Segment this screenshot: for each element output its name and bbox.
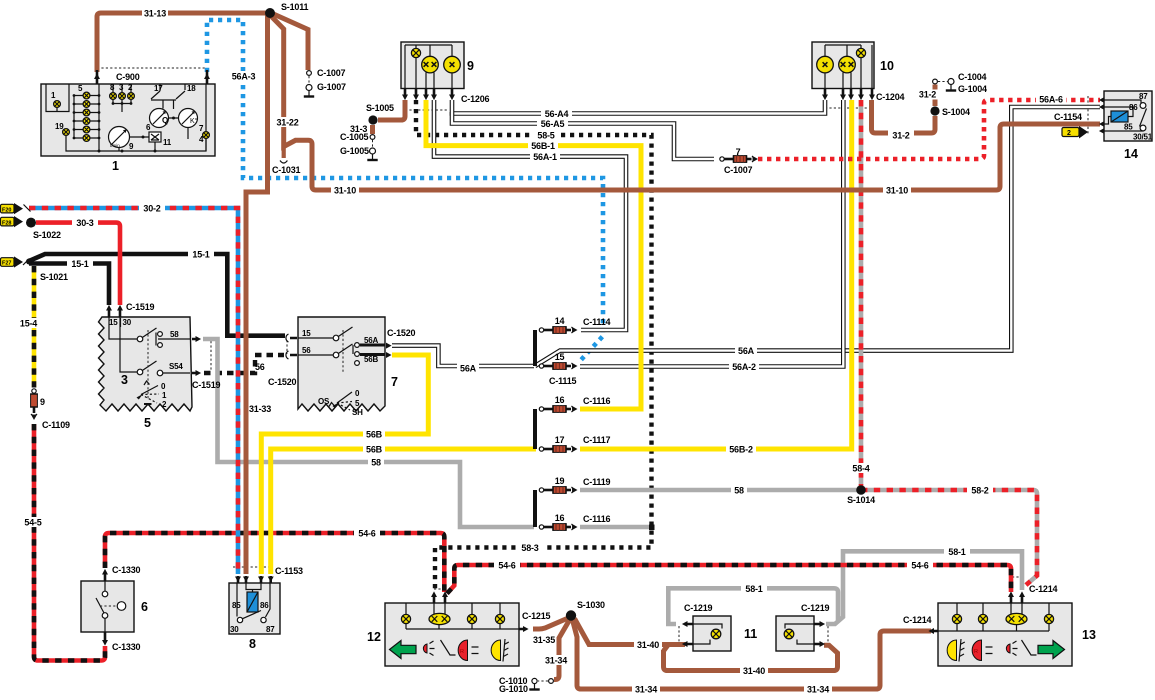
- cluster internal wiring: [46, 84, 206, 151]
- lamp 10 high beam bulb: [817, 56, 834, 73]
- svg-text:56A: 56A: [738, 346, 755, 356]
- relay 8 internals: [247, 592, 258, 612]
- svg-text:C-1154: C-1154: [1054, 112, 1082, 122]
- fuse 14: [539, 326, 577, 334]
- cluster bulb 19: [63, 129, 70, 136]
- svg-text:G-1005: G-1005: [340, 146, 369, 156]
- wire 56A-3 blue dotted: C-900 to C-1115: [207, 20, 603, 361]
- cluster bulbs 8 3 2: [110, 93, 135, 105]
- wire 56B-2 yellow: fuse 17 C-1117 to lamp 10: [580, 100, 852, 449]
- switch 7 selector: [329, 392, 352, 410]
- svg-text:1: 1: [112, 159, 119, 173]
- side marker lamp left (component 11a) box: [693, 616, 731, 651]
- svg-text:86: 86: [260, 601, 269, 610]
- fog lamp relay (component 8) box: [229, 583, 280, 634]
- svg-text:54-6: 54-6: [358, 529, 375, 539]
- svg-text:15-4: 15-4: [20, 319, 37, 329]
- connector dashed line C-1519: [210, 341, 212, 371]
- lamp 13 bulb 2: [978, 614, 987, 623]
- connector dashed line C-1204: [825, 107, 872, 109]
- lamp 9 high beam bulb: [444, 56, 461, 73]
- lamp 13 pins: [933, 595, 1022, 631]
- svg-text:OS: OS: [318, 397, 330, 406]
- svg-text:56B: 56B: [364, 355, 378, 364]
- svg-text:2: 2: [1067, 130, 1071, 137]
- fuse block jumper 16-17: [533, 409, 537, 449]
- wire 56-A4 outline: lamp 9 to lamp 10: [452, 100, 825, 114]
- connector dashed line C-1219 right: [827, 626, 829, 642]
- wire 54-5 red/black dashed: fuse 9 C-1109 to switch 6: [34, 424, 105, 661]
- svg-text:54-6: 54-6: [911, 561, 928, 571]
- svg-text:58: 58: [734, 486, 744, 496]
- lamp 13 icon fog yellow: [947, 639, 965, 662]
- fuse block jumper 14-15: [533, 330, 537, 366]
- lamp 10 low beam bulb: [839, 56, 856, 73]
- lamp 12 icon turn green arrow: [390, 641, 417, 659]
- svg-text:G-1004: G-1004: [958, 84, 987, 94]
- svg-text:58-5: 58-5: [537, 131, 554, 141]
- svg-text:K°: K°: [190, 117, 198, 125]
- splice S-1021: [26, 259, 32, 265]
- svg-text:C-1219: C-1219: [801, 603, 830, 613]
- svg-text:F27: F27: [2, 261, 11, 267]
- lamp 13 bulb 1: [952, 614, 961, 623]
- tick at 30-2 start: [24, 205, 31, 212]
- svg-text:87: 87: [266, 625, 275, 634]
- lamp 10 internals: [825, 45, 872, 89]
- svg-text:87: 87: [1139, 92, 1148, 101]
- relay 8 pins C-1153: [238, 576, 271, 583]
- svg-text:C-1520: C-1520: [387, 328, 416, 338]
- svg-text:11: 11: [163, 138, 172, 147]
- wire 31-35 brown: S-1030 to rear lamp 12 C-1215: [533, 619, 567, 630]
- svg-text:54-5: 54-5: [24, 518, 41, 528]
- fuse 7: [720, 155, 758, 163]
- svg-text:10: 10: [880, 59, 894, 73]
- wire 15-1 black upper: S-1021 to switch 7 and fuse block: [29, 254, 285, 336]
- svg-text:C-1109: C-1109: [42, 420, 70, 430]
- svg-text:58-1: 58-1: [948, 547, 965, 557]
- svg-text:C-1330: C-1330: [112, 642, 141, 652]
- svg-text:31-35: 31-35: [533, 635, 555, 645]
- svg-text:C-1005: C-1005: [340, 132, 369, 142]
- wire 31-2 stub: S-1004 to C-1004: [933, 85, 938, 107]
- wire 15-1 black lower: S-1021 to switch 3: [29, 264, 109, 306]
- svg-text:7: 7: [391, 375, 398, 389]
- wire 56B yellow: switch 7 to relay 8: [261, 355, 428, 574]
- svg-text:S-1005: S-1005: [366, 103, 394, 113]
- wire stub: S-1005 to C-1005: [370, 125, 375, 134]
- svg-text:30/51: 30/51: [1133, 133, 1153, 142]
- svg-text:56A: 56A: [460, 364, 477, 374]
- svg-text:C-1219: C-1219: [684, 603, 713, 613]
- svg-text:C-1204: C-1204: [876, 92, 905, 102]
- svg-text:S-1014: S-1014: [847, 495, 875, 505]
- lamp 13 icon tail: [1006, 640, 1036, 656]
- svg-text:R: R: [460, 649, 464, 655]
- lamp 13 dual bulb: [1006, 613, 1027, 624]
- fuse block jumper 19-16b: [533, 490, 537, 527]
- fuse 9 vertical: [30, 389, 38, 420]
- wire 31-40 brown: S-1030 to side marker lamps 11: [575, 619, 686, 645]
- headlamp relay (component 14) box: [1104, 91, 1152, 141]
- svg-text:31-34: 31-34: [807, 685, 829, 695]
- wire 31-2 brown: lamp 10 to splice S-1004: [872, 100, 936, 133]
- ground C-1010 G-1010: [529, 678, 553, 689]
- splice S-1004: [930, 106, 939, 115]
- wire 58 gray: switch 3 to fuse C-1116b: [203, 339, 534, 527]
- wire 58-1 gray: side marker loop: [668, 588, 838, 624]
- svg-text:t/min: t/min: [110, 143, 120, 148]
- svg-text:C-1117: C-1117: [583, 435, 611, 445]
- svg-text:56A-2: 56A-2: [732, 362, 756, 372]
- wire 56 black dashed: switch 3 S54 to switch 7: [204, 355, 284, 373]
- connector dashed line C-1206: [405, 109, 448, 111]
- lamp 13 icon stop red: [972, 640, 992, 661]
- svg-text:C-1215: C-1215: [522, 611, 551, 621]
- svg-text:15: 15: [555, 352, 565, 362]
- svg-text:9: 9: [40, 397, 45, 407]
- connector dashed line C-1153: [233, 566, 273, 568]
- svg-text:S-1021: S-1021: [40, 272, 68, 282]
- wire 56A-1 outline: lamp 9 to fuse 14 C-1114: [434, 100, 626, 330]
- wire 31-34 brown: S-1030 to rear lamp 13 C-1214: [573, 620, 932, 689]
- relay 14 internals: [1104, 100, 1143, 131]
- switch 7 internals: [298, 327, 353, 355]
- svg-text:31-22: 31-22: [276, 118, 298, 128]
- svg-text:15-1: 15-1: [192, 250, 209, 260]
- splice S-1005: [368, 115, 377, 124]
- side marker lamp right (component 11b) box: [776, 616, 814, 651]
- headlamp left (component 9) box: [401, 42, 464, 89]
- svg-text:C-1519: C-1519: [192, 380, 221, 390]
- svg-text:6: 6: [141, 600, 148, 614]
- svg-text:7: 7: [736, 147, 741, 157]
- rear lamp 12 internals: [406, 603, 519, 629]
- lamp 12 icon fog yellow: [491, 639, 509, 662]
- svg-text:14: 14: [1124, 147, 1138, 161]
- fuse 19: [539, 486, 577, 494]
- headlamp right (component 10) box: [812, 42, 874, 89]
- svg-text:C-900: C-900: [116, 72, 140, 82]
- wire 31-3 brown: lamp 9 to splice S-1005: [378, 100, 405, 120]
- svg-text:30-3: 30-3: [76, 218, 93, 228]
- connector dashed line C-900: [97, 67, 207, 69]
- svg-text:C-1153: C-1153: [275, 566, 303, 576]
- svg-text:58: 58: [170, 330, 179, 339]
- svg-text:C-1007: C-1007: [724, 165, 753, 175]
- svg-text:G-1010: G-1010: [499, 684, 528, 694]
- svg-text:C-1520: C-1520: [268, 377, 297, 387]
- switch 3 pins C-1519: [109, 309, 120, 317]
- svg-text:56A-1: 56A-1: [533, 152, 557, 162]
- svg-text:S-1004: S-1004: [942, 107, 970, 117]
- svg-text:C-1116: C-1116: [583, 514, 611, 524]
- svg-text:30: 30: [123, 318, 132, 327]
- splice S-1030: [566, 610, 576, 620]
- svg-text:58-2: 58-2: [971, 486, 988, 496]
- lamp 12 bulb 1: [401, 614, 410, 623]
- F-arrow F27: [1, 256, 24, 267]
- svg-text:15: 15: [109, 318, 118, 327]
- svg-text:SH: SH: [352, 408, 363, 417]
- instrument cluster U1 (component 1) box: [41, 84, 215, 156]
- wire 56A-6 red dotted: fuse 7 C-1007 to relay 14 pin 87: [758, 100, 1100, 159]
- lamp 12 dual bulb: [429, 613, 450, 624]
- cluster gauge 6 Q: [150, 109, 169, 128]
- svg-text:56B: 56B: [366, 445, 383, 455]
- svg-text:C-1007: C-1007: [317, 68, 346, 78]
- switch 7 output arrows C-1520: [386, 343, 392, 358]
- svg-text:C-1116: C-1116: [583, 396, 611, 406]
- lamp 12 bulb 3: [467, 614, 476, 623]
- svg-text:9: 9: [467, 59, 474, 73]
- svg-text:31-10: 31-10: [886, 186, 908, 196]
- svg-text:F20: F20: [2, 207, 11, 213]
- svg-text:Q: Q: [162, 116, 168, 125]
- wire 56B yellow: relay 8 to fuse 17: [271, 449, 536, 574]
- wire 58 gray stub: fuse 16b to black dotted junction: [580, 525, 651, 530]
- fuse 16: [539, 405, 577, 413]
- svg-text:31-2: 31-2: [919, 90, 936, 100]
- wire 56A-2 outline: fuse 15 C-1115 to lamp 10: [580, 100, 843, 367]
- switch 6 pins C-1330: [104, 573, 107, 641]
- svg-text:56-A4: 56-A4: [545, 109, 569, 119]
- svg-text:85: 85: [1124, 123, 1133, 132]
- ground C-1004 G-1004: [933, 79, 957, 91]
- svg-text:C-1031: C-1031: [272, 165, 301, 175]
- svg-text:58-4: 58-4: [852, 464, 869, 474]
- wire 54-6 red/black dashed: rear lamp 12 to rear lamp 13: [447, 565, 1011, 594]
- svg-text:56: 56: [302, 346, 311, 355]
- splice S-1011: [265, 8, 275, 18]
- svg-text:S-1011: S-1011: [281, 2, 309, 12]
- svg-text:19: 19: [55, 122, 64, 131]
- connector C-1031 stub: [282, 147, 286, 158]
- svg-text:31-34: 31-34: [545, 656, 567, 666]
- lamp 10 pins: [825, 89, 872, 97]
- svg-text:C-1330: C-1330: [112, 565, 141, 575]
- svg-text:86: 86: [1129, 103, 1138, 112]
- side marker 11a internals: [693, 624, 722, 644]
- svg-text:3: 3: [121, 373, 128, 387]
- svg-text:S-1030: S-1030: [577, 600, 605, 610]
- relay 14 pins C-1154: [1099, 97, 1105, 134]
- wire 31-22 / 31-10 brown: S-1011 via C-1031 to relay 14 pin 85: [269, 14, 1100, 190]
- svg-text:56A-3: 56A-3: [232, 72, 256, 82]
- svg-text:15-1: 15-1: [71, 259, 88, 269]
- svg-text:17: 17: [154, 84, 163, 93]
- wire 31-33 brown: S-1011 to relay 8 pin 85: [246, 14, 268, 574]
- lamp 12 pins: [434, 595, 524, 629]
- rear lamp left (component 12) box: [385, 603, 519, 666]
- side marker 11a pins C-1219: [686, 624, 693, 644]
- svg-text:56B: 56B: [366, 430, 383, 440]
- svg-text:56-A5: 56-A5: [541, 119, 565, 129]
- cluster gauge 9 t/min: [109, 127, 130, 149]
- svg-text:G-1007: G-1007: [317, 82, 346, 92]
- cluster bulb 1: [54, 101, 61, 108]
- switch 7 input arrows C-1520: [290, 338, 297, 355]
- lamp 9 low beam bulb: [422, 56, 439, 73]
- lamp 12 icon stop red: [458, 640, 478, 661]
- svg-text:C-1115: C-1115: [549, 376, 577, 386]
- wire 15-4 yellow/black dashed: S-1021 to fuse 9: [32, 266, 37, 388]
- side marker 11b internals: [784, 624, 814, 644]
- svg-text:5: 5: [144, 416, 151, 430]
- wire 58 gray: fuse 19 to splice S-1014: [580, 488, 858, 493]
- svg-text:31-34: 31-34: [635, 685, 657, 695]
- lamp 12 icon tail: [423, 640, 455, 656]
- svg-text:13: 13: [1082, 628, 1096, 642]
- lamp 9 internals: [405, 45, 452, 89]
- wire 30-2 red/blue dashed: F-arrow to relay 8 pin 30: [29, 208, 238, 574]
- svg-text:16: 16: [555, 395, 565, 405]
- svg-text:C-1214: C-1214: [903, 615, 932, 625]
- svg-text:58-1: 58-1: [745, 584, 762, 594]
- wire 56-A5 outline: lamp 9 to fuse 7 C-1007: [452, 112, 714, 159]
- lamp 10 small bulb: [856, 48, 865, 57]
- cluster labels: [51, 83, 204, 151]
- svg-text:12: 12: [367, 630, 381, 644]
- switch 3 output arrows C-1519: [192, 339, 197, 373]
- svg-text:17: 17: [555, 435, 565, 445]
- fuse arrow 2 into relay 14: [1062, 126, 1088, 139]
- cluster gauge 7 K: [179, 109, 198, 128]
- svg-text:19: 19: [555, 476, 565, 486]
- svg-text:30-2: 30-2: [143, 204, 160, 214]
- svg-text:31-40: 31-40: [743, 666, 765, 676]
- switch 3/5 internals: [109, 317, 190, 373]
- lamp 13 icon turn green arrow: [1038, 641, 1065, 659]
- svg-text:R: R: [974, 649, 978, 655]
- fuse 17: [539, 445, 577, 453]
- svg-text:14: 14: [555, 316, 565, 326]
- svg-text:85: 85: [232, 601, 241, 610]
- connector dashed line C-1520: [286, 340, 288, 354]
- svg-text:F28: F28: [2, 220, 11, 226]
- rear lamp 13 internals: [938, 603, 1049, 631]
- ground C-1005 G-1005: [367, 135, 377, 160]
- switch 6 internals: [102, 591, 108, 597]
- svg-text:11: 11: [744, 627, 757, 641]
- cluster bulb 4: [203, 132, 210, 139]
- wire brown: S-1011 to ground C-1007: [269, 12, 308, 70]
- cluster bulb column 5: [73, 92, 101, 141]
- fuse 16b: [539, 523, 577, 531]
- lamp 9 small bulb: [411, 48, 420, 57]
- svg-text:31-2: 31-2: [892, 131, 909, 141]
- lamp 9 pins: [405, 89, 452, 97]
- svg-text:58-3: 58-3: [521, 543, 538, 553]
- wire 31-34 brown: S-1030 to ground C-1010: [554, 620, 570, 680]
- splice S-1022: [26, 218, 36, 228]
- cluster junction dots: [98, 117, 176, 153]
- svg-text:C-1206: C-1206: [461, 94, 490, 104]
- wire 56A outline: switch 7 to fuse node: [392, 346, 534, 366]
- svg-text:56B-1: 56B-1: [531, 141, 555, 151]
- svg-text:16: 16: [555, 513, 565, 523]
- side marker 11b pins C-1219: [814, 624, 821, 644]
- fuse 15: [539, 362, 577, 370]
- connector dashed line C-1154: [1087, 96, 1089, 135]
- svg-text:31-10: 31-10: [334, 186, 356, 196]
- connector dashed line C-1214 top: [1012, 576, 1023, 578]
- wire 58-2 gray/red dashed: S-1014 to rear lamp 13: [861, 490, 1037, 585]
- cluster box 11: [149, 132, 161, 142]
- connector dashed line C-1215 top: [434, 588, 445, 590]
- svg-text:56A-6: 56A-6: [1039, 95, 1063, 105]
- lamp 12 bulb 4: [495, 614, 504, 623]
- junction gray 58 to black dotted: [649, 525, 655, 531]
- lamp 13 bulb 4: [1044, 614, 1053, 623]
- wire 56A outline: fuse node to relay 14 pin 86: [535, 107, 1100, 366]
- svg-text:8: 8: [249, 637, 256, 651]
- svg-text:C-1004: C-1004: [958, 72, 987, 82]
- fog lamp switch (component 6) box: [81, 581, 134, 632]
- svg-text:56: 56: [255, 362, 265, 372]
- ground C-1007 G-1007: [304, 71, 314, 97]
- F-arrow F28: [1, 216, 24, 227]
- svg-text:56A: 56A: [364, 336, 378, 345]
- rear lamp right (component 13) box: [938, 603, 1072, 666]
- wire 58-4 gray/red dashed: lamp 10 to splice S-1014: [859, 100, 864, 490]
- svg-text:58: 58: [371, 458, 381, 468]
- svg-text:31-33: 31-33: [249, 404, 271, 414]
- svg-text:18: 18: [187, 84, 196, 93]
- svg-text:54-6: 54-6: [498, 561, 515, 571]
- splice S-1014: [856, 485, 866, 495]
- svg-text:C-1119: C-1119: [583, 477, 611, 487]
- svg-text:31-40: 31-40: [637, 640, 659, 650]
- wire 54-6 red/black dashed: switch 6 to rear lamp 12: [105, 533, 444, 592]
- svg-text:S-1022: S-1022: [33, 230, 61, 240]
- wire 58-5 / 58-3 black dotted: lamp 9 to junction to rear lamp 12: [416, 100, 652, 591]
- svg-text:C-1214: C-1214: [1029, 584, 1058, 594]
- svg-text:C-1519: C-1519: [126, 302, 155, 312]
- C-900 pins: [97, 70, 207, 84]
- svg-text:S54: S54: [169, 362, 183, 371]
- svg-text:31-13: 31-13: [144, 9, 166, 19]
- F-arrow F20: [1, 203, 24, 214]
- svg-text:C-1114: C-1114: [583, 317, 611, 327]
- svg-text:56B-2: 56B-2: [729, 445, 753, 455]
- svg-text:15: 15: [302, 329, 311, 338]
- wire 31-13 brown: C-900 to splice S-1011: [97, 13, 266, 72]
- wire 30-3 red: S-1022 to switch 3 pin 30: [36, 223, 120, 305]
- wire 58-1 gray: marker junction to rear lamp 13: [826, 551, 1022, 624]
- connector dashed line C-1219 left: [678, 626, 680, 642]
- wire 56B-1 yellow: lamp 9 to fuse 16 C-1116: [426, 100, 641, 409]
- switch 5 selector: [141, 381, 159, 404]
- svg-text:30: 30: [230, 625, 239, 634]
